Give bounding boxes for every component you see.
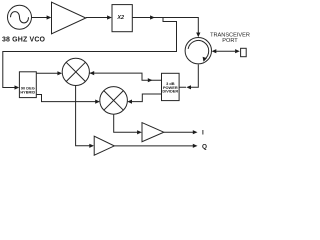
wire mixer M2 IF output down to I amplifier	[114, 115, 138, 133]
circulator	[185, 38, 211, 64]
wire X2 to circulator	[132, 18, 198, 35]
svg-text:X2: X2	[116, 15, 124, 21]
3 dB power divider box	[162, 73, 180, 100]
arrowhead down into circulator	[196, 33, 200, 38]
amplifier A1	[52, 2, 86, 34]
arrowhead into I amplifier	[137, 130, 142, 134]
sine wave inside VCO	[11, 12, 29, 23]
oscillator 38 GHz VCO	[8, 5, 32, 29]
90 deg hybrid box	[19, 72, 36, 98]
wire VCO to amplifier	[32, 17, 51, 19]
frequency doubler X2 box	[112, 5, 132, 32]
arrowhead into power divider upper-left port	[148, 78, 153, 82]
wire power divider to mixer M2 RF port	[131, 94, 162, 102]
transceiver port symbol	[241, 48, 247, 56]
arrowhead transceiver line right end	[235, 49, 240, 53]
circulator rotation arc	[188, 41, 209, 60]
wire mixer M1 IF output down to Q amplifier	[76, 86, 91, 146]
arrowhead into amplifier	[47, 15, 52, 19]
mixer M1 X diagonals	[66, 62, 85, 81]
I amplifier A2	[142, 123, 164, 142]
wire hybrid top output to mixer M1	[36, 72, 58, 74]
arrowhead into mixer M1 left port	[57, 71, 62, 75]
wire I output	[164, 131, 193, 133]
wire amplifier to X2	[86, 17, 111, 19]
wire circulator to transceiver port (bidirectional)	[216, 50, 236, 52]
arrowhead into power divider right port	[186, 85, 191, 89]
arrowhead into hybrid input	[15, 85, 20, 89]
arrowhead on circulator arc	[203, 57, 207, 62]
svg-text:I: I	[202, 130, 204, 137]
arrowhead on LO line after X2	[150, 15, 155, 19]
wire mixer M1 LO port to power divider	[89, 73, 161, 80]
mixer M2 X diagonals	[104, 91, 124, 111]
wire Q output	[114, 145, 193, 147]
arrowhead into mixer M2 right port	[127, 100, 132, 104]
mixer M1	[62, 58, 89, 85]
svg-text:DIVIDER: DIVIDER	[162, 89, 178, 94]
svg-text:38 GHZ VCO: 38 GHZ VCO	[2, 37, 46, 44]
Q amplifier A3	[94, 136, 114, 155]
svg-text:HYBRID: HYBRID	[20, 89, 35, 94]
svg-text:Q: Q	[202, 143, 207, 150]
arrowhead Q output	[193, 144, 198, 148]
wire hybrid bottom output to mixer M2	[36, 95, 96, 102]
svg-text:PORT: PORT	[222, 38, 238, 44]
arrowhead into X2	[107, 15, 112, 19]
arrowhead I output	[193, 130, 198, 134]
LO tap wire (staple from main line)	[3, 18, 177, 88]
arrowhead into mixer M1 right port	[90, 71, 95, 75]
wire circulator down to power divider	[179, 65, 198, 88]
arrowhead into Q amplifier	[89, 144, 94, 148]
arrowhead into mixer M2 left port	[95, 100, 100, 104]
arrowhead transceiver line left end	[212, 49, 217, 53]
mixer M2	[100, 87, 128, 115]
